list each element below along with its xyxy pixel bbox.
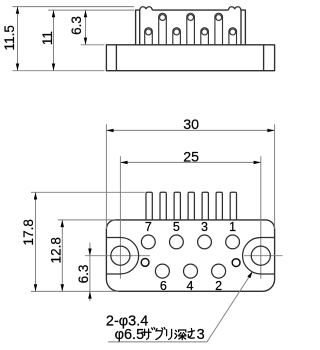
front view contact teeth row bbox=[146, 192, 237, 220]
svg-text:1: 1 bbox=[229, 220, 236, 234]
contact hole 6 bbox=[155, 264, 169, 278]
right mounting hole center lines bbox=[260, 156, 262, 279]
left counterbore phi6.5 bbox=[107, 237, 139, 274]
svg-text:6.3: 6.3 bbox=[76, 265, 91, 284]
svg-text:30: 30 bbox=[183, 117, 199, 133]
extension line side-view bottom bbox=[13, 70, 105, 72]
extension line 11 top bbox=[48, 9, 134, 11]
extension line front-view bottom bbox=[31, 290, 119, 292]
right mounting hole phi3.4 bbox=[251, 246, 270, 265]
contact hole 1 bbox=[226, 235, 240, 249]
side view short contact pin 7 bbox=[229, 28, 237, 45]
dimension 17.8 line bbox=[35, 192, 37, 291]
extension line 11.5 top bbox=[13, 6, 135, 8]
front view body outline bbox=[106, 220, 274, 291]
note leader line bbox=[207, 271, 253, 342]
side view housing right wall bbox=[241, 10, 245, 45]
extension line 6.3 side-view bottom bbox=[81, 44, 105, 46]
note kana text zaguri fukasa bbox=[142, 328, 195, 340]
dimension 11.5 line bbox=[17, 7, 19, 71]
side view base plate outline bbox=[106, 45, 274, 71]
extension line 30 right bbox=[274, 124, 276, 229]
svg-text:2: 2 bbox=[215, 279, 222, 293]
side view tall contact pin 2 bbox=[159, 13, 167, 45]
contact hole 3 bbox=[198, 235, 212, 249]
svg-text:6.3: 6.3 bbox=[69, 16, 84, 35]
dimension 25 line bbox=[120, 161, 260, 163]
svg-text:17.8: 17.8 bbox=[21, 219, 36, 245]
side view short contact pin 3 bbox=[173, 28, 181, 45]
side view left latch bumps bbox=[140, 7, 153, 10]
side view short contact pin 1 bbox=[145, 28, 153, 45]
extension line 30 left bbox=[105, 124, 107, 229]
svg-text:11: 11 bbox=[40, 31, 55, 45]
right locating hole bbox=[232, 259, 240, 267]
note underline bbox=[108, 341, 207, 343]
side view housing left wall bbox=[136, 10, 140, 45]
svg-text:φ6.5: φ6.5 bbox=[115, 327, 145, 343]
svg-text:12.8: 12.8 bbox=[49, 237, 64, 263]
dimension 30 line bbox=[106, 129, 274, 131]
dimension 11 line bbox=[53, 10, 55, 71]
svg-text:3: 3 bbox=[201, 220, 208, 234]
side view base right step line bbox=[263, 45, 265, 71]
extension line 12.8 top bbox=[58, 219, 116, 221]
svg-text:4: 4 bbox=[187, 279, 194, 293]
dimension 12.8 line bbox=[61, 220, 63, 292]
svg-text:7: 7 bbox=[145, 220, 152, 234]
dimension 6.3 front-view line bbox=[89, 243, 91, 301]
side view tall contact pin 4 bbox=[187, 13, 195, 45]
svg-text:11.5: 11.5 bbox=[2, 25, 17, 50]
contact hole 4 bbox=[184, 264, 198, 278]
contact hole 2 bbox=[212, 264, 226, 278]
side view housing top edge bbox=[152, 9, 228, 11]
svg-text:3: 3 bbox=[197, 327, 205, 343]
svg-text:25: 25 bbox=[183, 150, 199, 166]
left mounting hole center lines bbox=[119, 156, 121, 279]
contact hole 5 bbox=[170, 235, 184, 249]
svg-text:6: 6 bbox=[160, 279, 167, 293]
right counterbore phi6.5 bbox=[243, 237, 275, 274]
dimension 6.3 side-view line bbox=[85, 10, 87, 45]
contact hole 7 bbox=[141, 235, 155, 249]
side view base left step line bbox=[115, 45, 117, 71]
left locating hole bbox=[141, 259, 149, 267]
left mounting hole phi3.4 bbox=[111, 246, 130, 265]
side view right latch bumps bbox=[228, 7, 241, 10]
svg-text:5: 5 bbox=[173, 220, 180, 234]
side view short contact pin 5 bbox=[201, 28, 209, 45]
side view tall contact pin 6 bbox=[215, 13, 223, 45]
extension line 17.8 top bbox=[31, 191, 145, 193]
